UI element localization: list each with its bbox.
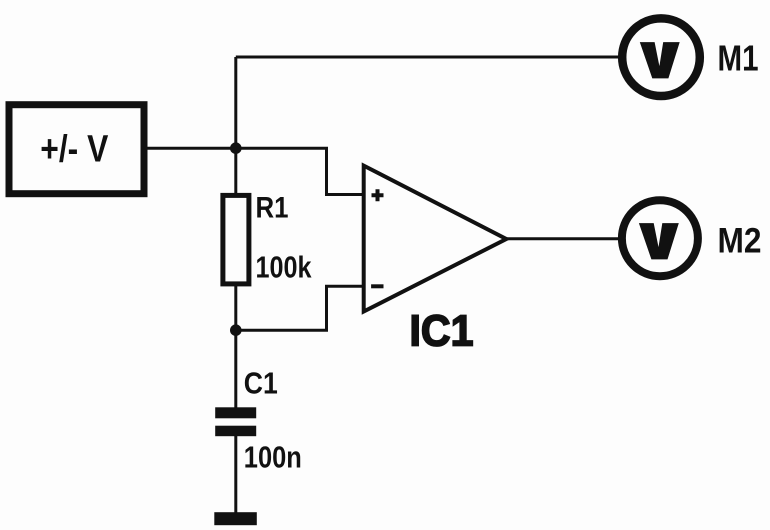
wire node B to op-amp minus input	[236, 286, 363, 330]
op-amp IC1	[364, 166, 507, 356]
node B junction dot	[230, 324, 242, 336]
meter M1	[622, 18, 758, 96]
node A junction dot	[230, 142, 242, 154]
wire node A down to resistor R1 top	[234, 148, 237, 195]
meter M2	[622, 200, 762, 276]
svg-text:M1: M1	[718, 38, 759, 79]
wire op-amp output to meter M2	[505, 237, 620, 240]
minus input marker	[371, 284, 383, 288]
plus input marker	[372, 189, 384, 201]
capacitor C1	[215, 366, 302, 475]
wire top horizontal from node A to meter M1	[236, 56, 619, 59]
wire capacitor C1 to ground	[234, 436, 237, 514]
svg-text:R1: R1	[256, 191, 289, 224]
wire node B down to capacitor C1	[234, 330, 237, 408]
wire resistor R1 bottom to node B	[234, 284, 237, 330]
svg-text:100n: 100n	[244, 440, 302, 475]
svg-text:IC1: IC1	[410, 307, 474, 356]
wire vertical from top wire down to node A	[234, 57, 237, 148]
svg-text:M2: M2	[718, 221, 762, 260]
svg-text:100k: 100k	[256, 249, 313, 284]
svg-text:+/- V: +/- V	[40, 129, 109, 171]
resistor R1	[223, 191, 312, 284]
voltage source box +/-V	[9, 105, 144, 194]
ground	[214, 512, 256, 525]
wire from source box to node A and on to op-amp + input	[146, 148, 363, 194]
svg-text:C1: C1	[244, 366, 278, 401]
